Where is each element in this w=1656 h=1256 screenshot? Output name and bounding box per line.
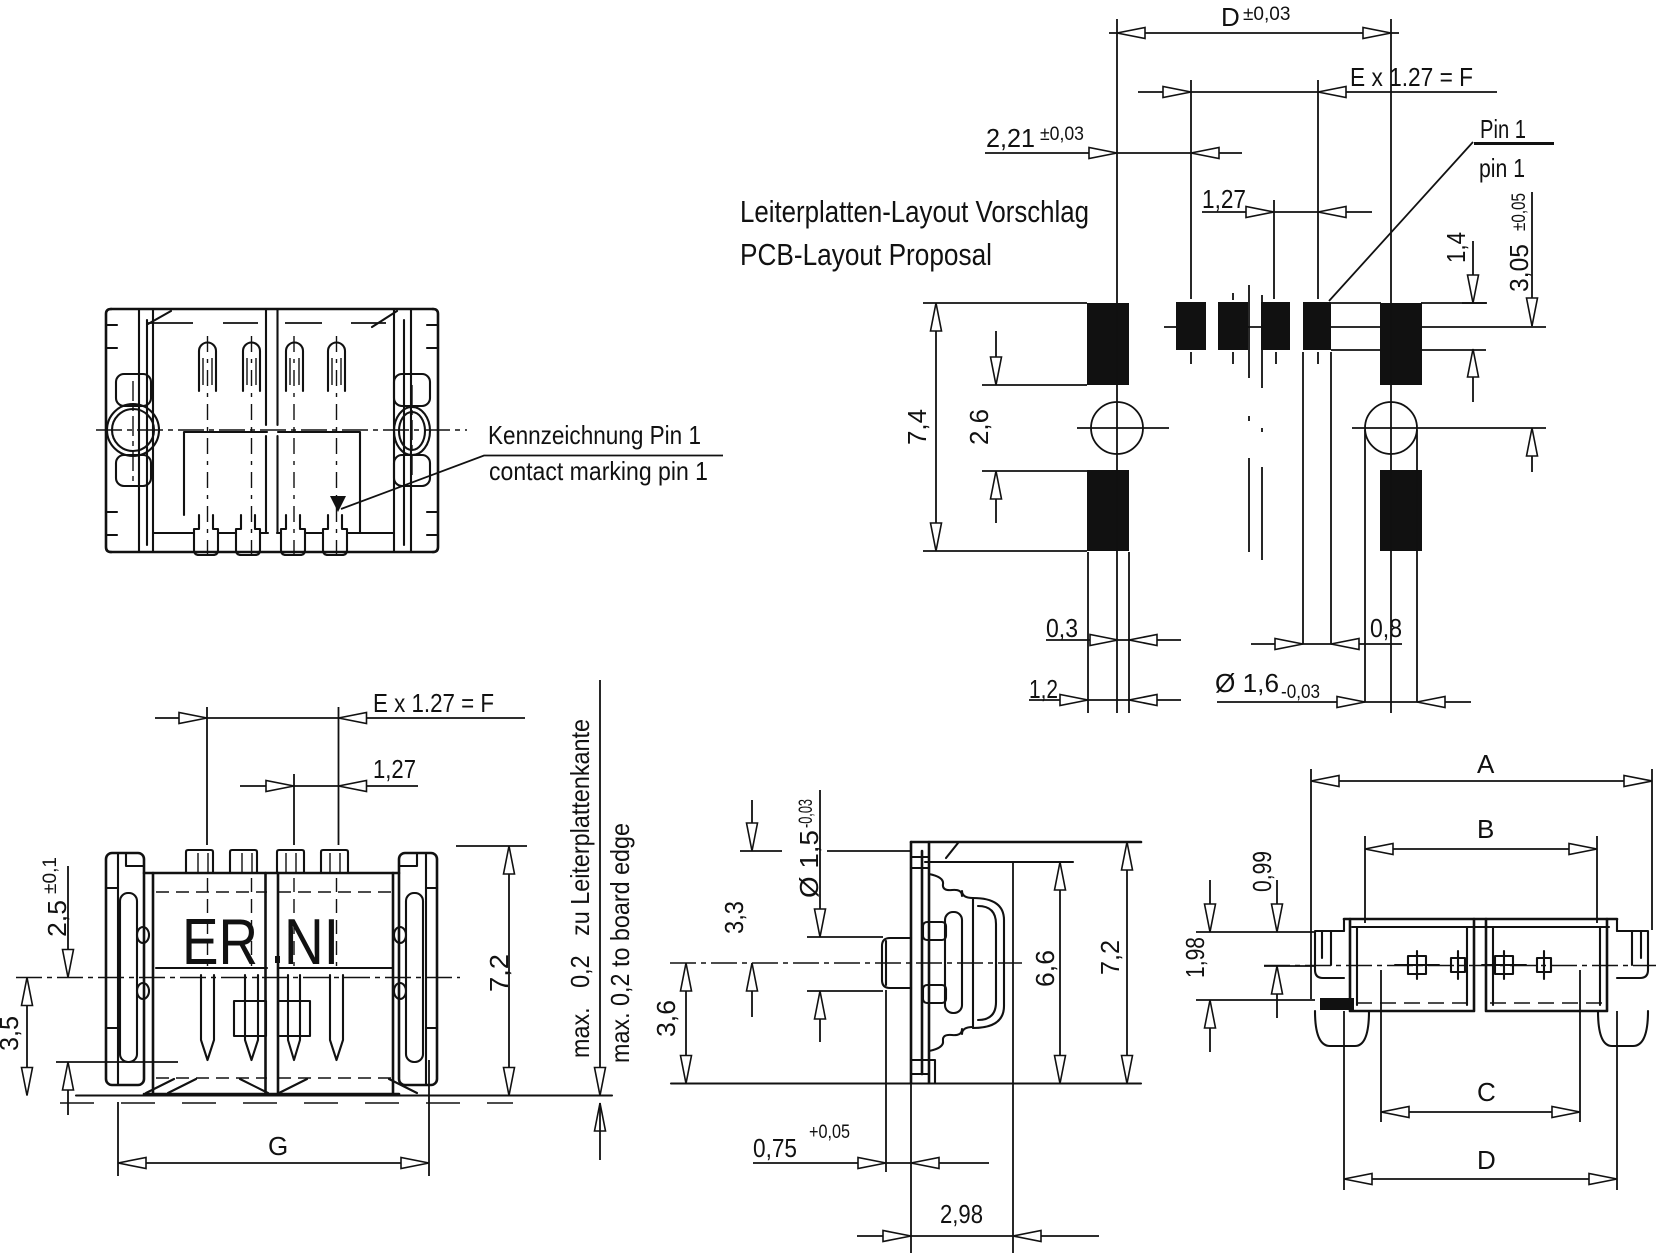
tick y1000 bbox=[1196, 999, 1315, 1001]
dimension D bbox=[1109, 32, 1399, 34]
svg-text:Pin 1: Pin 1 bbox=[1480, 114, 1526, 144]
pin centerlines dashed bbox=[207, 336, 209, 555]
svg-text:C: C bbox=[1477, 1077, 1496, 1107]
svg-text:±0,1: ±0,1 bbox=[40, 857, 61, 894]
extension line pad3 center bbox=[1273, 200, 1275, 299]
right latch details bbox=[1632, 931, 1641, 965]
dimension B bbox=[1365, 836, 1597, 923]
D extension line left bbox=[1116, 19, 1118, 713]
horizontal line y471 (2,6 bottom) bbox=[982, 470, 1087, 472]
hole left bbox=[1091, 402, 1143, 454]
svg-text:3,3: 3,3 bbox=[719, 901, 749, 934]
corner diagonal left block bbox=[148, 311, 171, 324]
support box right bbox=[278, 1001, 310, 1036]
dimension 7,2 side bbox=[1126, 842, 1128, 1084]
pin inner line bbox=[885, 941, 887, 985]
plate corner diagonal bbox=[946, 843, 958, 858]
dimension D bottom bbox=[1344, 1011, 1617, 1190]
svg-text:Ø 1,5: Ø 1,5 bbox=[794, 830, 824, 898]
contact clip top bbox=[923, 922, 946, 940]
svg-text:Kennzeichnung Pin 1: Kennzeichnung Pin 1 bbox=[488, 420, 701, 450]
svg-text:contact marking pin 1: contact marking pin 1 bbox=[489, 456, 708, 486]
bottom foot bbox=[913, 1060, 935, 1083]
plate top edge bbox=[911, 841, 1141, 844]
pad right top bbox=[1380, 303, 1422, 385]
front plate bbox=[911, 842, 929, 1083]
svg-text:max. 0,2 to board edge: max. 0,2 to board edge bbox=[605, 823, 635, 1063]
pad right bottom bbox=[1380, 470, 1422, 551]
inner verticals bbox=[972, 898, 974, 1028]
svg-text:D: D bbox=[1477, 1145, 1496, 1175]
dimension diameter 1,5 bbox=[819, 790, 821, 1042]
line y862 bbox=[925, 861, 1073, 863]
svg-text:pin 1: pin 1 bbox=[1479, 153, 1525, 183]
E extension line pin4 bbox=[1317, 80, 1319, 299]
svg-text:7,2: 7,2 bbox=[1095, 940, 1125, 975]
center break line right bbox=[276, 309, 278, 533]
svg-text:2,6: 2,6 bbox=[964, 409, 994, 445]
svg-text:Ø 1,6: Ø 1,6 bbox=[1215, 668, 1279, 698]
horizontal line y551 left of pad bbox=[923, 550, 1087, 552]
svg-text:3,05: 3,05 bbox=[1504, 244, 1534, 292]
board line bbox=[76, 1094, 612, 1096]
svg-text:1,4: 1,4 bbox=[1441, 232, 1471, 263]
svg-text:E x 1.27 = F: E x 1.27 = F bbox=[373, 688, 494, 718]
hidden dash line y892 bbox=[156, 891, 392, 893]
block edges bbox=[153, 873, 393, 1094]
svg-text:3,5: 3,5 bbox=[0, 1016, 24, 1051]
extension x911 down bbox=[910, 1083, 912, 1253]
hidden dash above bottom bbox=[156, 1077, 392, 1079]
dimension 1,27 bbox=[240, 785, 418, 787]
svg-text:B: B bbox=[1477, 814, 1494, 844]
pad center ticks below bbox=[1190, 352, 1192, 364]
extension lines hole right tangents bbox=[1365, 430, 1417, 702]
left hole inner bbox=[112, 409, 154, 451]
left latch details bbox=[1322, 931, 1331, 965]
svg-text:E x 1.27 = F: E x 1.27 = F bbox=[1350, 62, 1473, 92]
left ear bbox=[1315, 931, 1369, 1046]
bottom chamfers bbox=[146, 1079, 417, 1093]
horizontal centerline front bbox=[16, 977, 460, 979]
dimension E x 1.27 = F bbox=[1138, 91, 1497, 93]
E extension lines bbox=[207, 707, 339, 845]
line x1013 bbox=[1012, 862, 1014, 1253]
pin symbol 2 bbox=[1451, 951, 1465, 979]
pin1 marking triangle bbox=[330, 496, 346, 512]
dimension 7,2 tick top bbox=[456, 845, 527, 847]
dimension 0,8 bbox=[1251, 643, 1402, 645]
solder tab 2 bbox=[236, 515, 260, 555]
svg-text:0,99: 0,99 bbox=[1247, 851, 1277, 892]
dimension 1,27 bbox=[1202, 211, 1372, 213]
dimension 3,5 bbox=[26, 978, 28, 1096]
pin symbol 3 bbox=[1482, 951, 1526, 979]
pad left bottom bbox=[1087, 470, 1129, 551]
centerline side bbox=[670, 962, 1022, 964]
solder tab 3 bbox=[281, 515, 305, 555]
dimension 7,4 bbox=[935, 303, 937, 551]
D extension line right bbox=[1390, 19, 1392, 713]
dimension 1,98 bbox=[1209, 880, 1211, 1052]
bump 3 bbox=[277, 850, 304, 873]
svg-text:1,98: 1,98 bbox=[1180, 937, 1210, 978]
left flange inner line bbox=[117, 853, 119, 1085]
contact pins front bbox=[201, 975, 214, 1060]
svg-text:0,8: 0,8 bbox=[1370, 613, 1402, 643]
body bottom edge bbox=[144, 1093, 399, 1096]
support box left bbox=[234, 1001, 266, 1036]
svg-text:-0,03: -0,03 bbox=[1281, 682, 1320, 703]
left flange notches bbox=[106, 853, 144, 1028]
solder tab 4 bbox=[323, 515, 347, 555]
dimension 0,3 bbox=[1046, 639, 1181, 641]
dimension A bbox=[1311, 769, 1652, 999]
extension x886 bbox=[885, 990, 887, 1172]
dimension 2,21 bbox=[985, 152, 1242, 154]
solder tab 1 bbox=[194, 515, 218, 555]
svg-text:PCB-Layout Proposal: PCB-Layout Proposal bbox=[740, 237, 992, 272]
bottom edge segments bbox=[153, 532, 394, 534]
body outline right bbox=[929, 874, 973, 898]
hole right bbox=[1365, 402, 1417, 454]
dimension 1,4 bbox=[1472, 241, 1474, 402]
inner body box lower bbox=[184, 432, 360, 533]
left flange screws bbox=[137, 927, 149, 943]
left block bbox=[1350, 919, 1474, 1011]
svg-text:±0,03: ±0,03 bbox=[1040, 124, 1084, 145]
bump inner lines bbox=[198, 853, 340, 872]
dimension E x 1.27 = F bbox=[155, 717, 525, 719]
max 0,2 dimension bbox=[599, 680, 601, 1088]
line y851 bbox=[740, 850, 911, 852]
right clip lower bbox=[394, 455, 430, 486]
svg-text:max. 0,2 zu Leiterplattenk: max. 0,2 zu Leiterplattenkante bbox=[565, 719, 595, 1058]
Pin 1 underline bbox=[1474, 142, 1554, 145]
right holddown spring bbox=[406, 893, 423, 1062]
right block bbox=[1486, 919, 1607, 1011]
left shell notches bbox=[106, 325, 117, 535]
svg-text:7,4: 7,4 bbox=[902, 409, 932, 445]
smd pad 1 bbox=[1176, 302, 1206, 350]
right flange notches bbox=[399, 853, 437, 1028]
dimension diameter 1,6 bbox=[1217, 701, 1471, 703]
dimension 2,5 bbox=[67, 866, 69, 1115]
dimension 0,99 bbox=[1276, 880, 1278, 1018]
svg-text:-0,03: -0,03 bbox=[796, 799, 817, 828]
left flange verticals bbox=[139, 309, 153, 552]
bump 1 bbox=[186, 850, 213, 873]
svg-text:1,2: 1,2 bbox=[1029, 674, 1058, 704]
contact U pin 2 bbox=[243, 343, 260, 392]
svg-text:±0,05: ±0,05 bbox=[1509, 193, 1530, 231]
smd pad 2 bbox=[1218, 302, 1248, 350]
dimension 1,2 bbox=[1029, 699, 1181, 701]
left clip lower bbox=[116, 455, 151, 486]
dimension 3,3 bbox=[751, 800, 753, 1017]
centerline hole right bbox=[1352, 427, 1546, 429]
pin symbol 4 bbox=[1537, 951, 1551, 979]
dimension 7,2 bbox=[508, 846, 510, 1096]
svg-text:Leiterplatten-Layout Vorschlag: Leiterplatten-Layout Vorschlag bbox=[740, 194, 1089, 229]
dimension C bbox=[1381, 970, 1580, 1122]
horizontal line y385 (2,6 top) bbox=[982, 384, 1087, 386]
mating pin bbox=[882, 938, 911, 988]
contact U pin 1 bbox=[199, 343, 216, 392]
1,27 extension line bbox=[293, 774, 295, 845]
svg-text:+0,05: +0,05 bbox=[809, 1122, 850, 1143]
corner diagonal right block bbox=[372, 311, 397, 327]
contact U pin 4 bbox=[328, 343, 345, 392]
contact clip bottom bbox=[923, 985, 946, 1003]
pad left top bbox=[1087, 303, 1129, 385]
extension lines below left pads bbox=[1088, 552, 1129, 713]
contact U pin 3 bbox=[286, 343, 303, 392]
right flange screws bbox=[394, 927, 406, 943]
svg-text:G: G bbox=[268, 1131, 288, 1161]
marking leader bbox=[341, 456, 723, 510]
right oval outer bbox=[394, 407, 430, 455]
left clip upper bbox=[116, 374, 151, 406]
svg-text:0,75: 0,75 bbox=[753, 1133, 797, 1163]
svg-text:±0,03: ±0,03 bbox=[1243, 4, 1290, 25]
dimension 6,6 bbox=[1059, 862, 1061, 1084]
svg-text:6,6: 6,6 bbox=[1030, 950, 1060, 987]
horizontal centerline bbox=[96, 429, 467, 431]
vertical centerline right oval bbox=[411, 385, 413, 480]
svg-text:3,6: 3,6 bbox=[651, 1000, 681, 1037]
dimension 2,98 bbox=[857, 1235, 1099, 1237]
body top edge bbox=[144, 872, 399, 875]
contact bar bbox=[945, 912, 962, 1013]
right flange verticals bbox=[394, 309, 411, 552]
body outer right edge bbox=[973, 898, 1004, 1028]
extension lines below pad4 bbox=[1303, 352, 1331, 644]
outer shell outline bbox=[111, 309, 433, 552]
tick line y1062 bbox=[56, 1061, 178, 1063]
pad top/bottom lines right side bbox=[1331, 303, 1486, 350]
left hole outer bbox=[107, 404, 159, 456]
E extension line pin1-left bbox=[1190, 80, 1192, 299]
board line side bbox=[671, 1082, 1141, 1084]
svg-text:1,27: 1,27 bbox=[373, 754, 416, 784]
Pin 1 leader bbox=[1329, 142, 1473, 301]
center break line left bbox=[265, 309, 267, 533]
pin symbol 1 bbox=[1395, 951, 1439, 979]
tick y966 bbox=[1264, 965, 1315, 967]
svg-text:2,21: 2,21 bbox=[986, 123, 1035, 153]
dimension G bbox=[118, 1060, 429, 1176]
vertical centerline left hole bbox=[132, 381, 134, 484]
left flange outer bbox=[106, 853, 144, 1085]
centerline hole left bbox=[1077, 427, 1169, 429]
logo separator dot bbox=[275, 956, 280, 963]
smd pad 4 bbox=[1303, 302, 1331, 350]
right flange outer bbox=[399, 853, 437, 1085]
dimension 2,6 bbox=[995, 331, 997, 523]
right shell notches bbox=[427, 325, 438, 535]
svg-text:2,98: 2,98 bbox=[940, 1199, 983, 1229]
bump 2 bbox=[230, 850, 257, 873]
right flange inner line bbox=[425, 853, 427, 1085]
pin centerlines dashed front bbox=[207, 878, 209, 966]
svg-text:0,3: 0,3 bbox=[1046, 613, 1078, 643]
smd pad 3 bbox=[1261, 302, 1290, 350]
centerline y327 segments bbox=[1164, 326, 1546, 328]
board dashed line bbox=[60, 1102, 513, 1104]
centerline bottom view bbox=[1264, 965, 1656, 967]
black mark bbox=[1320, 998, 1354, 1010]
right ear bbox=[1598, 931, 1648, 1046]
right oval inner bbox=[399, 412, 425, 450]
tick y932 bbox=[1196, 931, 1315, 933]
hidden line y323 bbox=[148, 322, 386, 324]
mating face line y968 bbox=[156, 967, 392, 969]
svg-text:2,5: 2,5 bbox=[42, 900, 72, 937]
body top edge bbox=[1344, 918, 1617, 921]
right clip upper bbox=[394, 374, 430, 406]
dimension 3,6 bbox=[685, 963, 687, 1084]
svg-text:A: A bbox=[1477, 749, 1495, 779]
body inner rounded edge bbox=[978, 906, 996, 1020]
left holddown spring bbox=[120, 893, 137, 1062]
dimension 0,75 bbox=[753, 1162, 989, 1164]
dimension 3,05 bbox=[1531, 192, 1533, 472]
horizontal line y303 left of pad bbox=[923, 302, 1087, 304]
svg-text:7,2: 7,2 bbox=[484, 954, 514, 992]
break centerline right bbox=[1261, 295, 1263, 560]
bottom dashed lines bbox=[1356, 1002, 1470, 1004]
bump 4 bbox=[321, 850, 348, 873]
svg-text:D: D bbox=[1221, 2, 1240, 32]
svg-text:1,27: 1,27 bbox=[1202, 184, 1246, 214]
plate notches bbox=[911, 857, 929, 1074]
break centerline left bbox=[1248, 285, 1250, 552]
